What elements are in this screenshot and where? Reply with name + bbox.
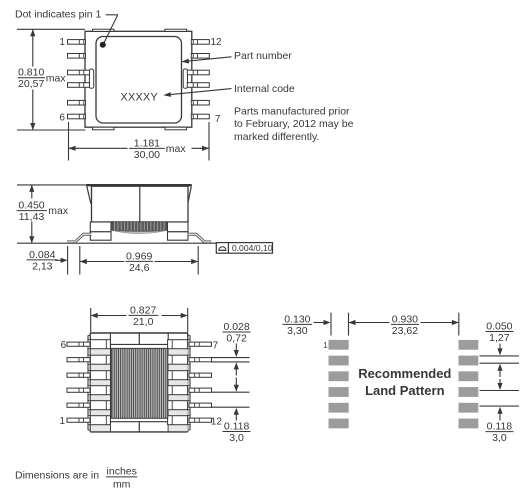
top view: dimension label 1.181/30,00 max xyxy=(129,137,186,161)
land pattern: dimension 0.130/3,30 xyxy=(283,313,349,337)
top view: left side clip bar xyxy=(89,69,93,88)
svg-text:0.930: 0.930 xyxy=(392,313,418,325)
top view: dimension 1.181/30,00 max extension lines and arrows xyxy=(69,122,210,161)
svg-text:1.181: 1.181 xyxy=(134,137,160,149)
side view: left base blocks xyxy=(90,222,111,240)
svg-text:3,30: 3,30 xyxy=(287,325,308,337)
side view: body outline xyxy=(92,186,189,222)
note: parts manufactured prior xyxy=(234,105,354,142)
svg-text:7: 7 xyxy=(213,340,219,351)
bottom view: dimension 0.827/21,0 xyxy=(91,304,188,332)
svg-text:Internal code: Internal code xyxy=(234,83,295,95)
svg-text:max: max xyxy=(48,205,69,217)
svg-text:30,00: 30,00 xyxy=(134,149,160,161)
bottom view: bottom rail with center parting line xyxy=(110,422,168,432)
bottom view: right terminal ladder column xyxy=(168,333,188,432)
side view: right base blocks xyxy=(168,222,189,240)
svg-text:Dot indicates pin 1: Dot indicates pin 1 xyxy=(15,9,102,21)
svg-text:XXXXY: XXXXY xyxy=(120,91,158,103)
svg-text:12: 12 xyxy=(211,37,223,48)
side view: dimension 0.969/24,6 xyxy=(80,246,198,275)
top view: pin 1 indicator dot xyxy=(100,42,106,48)
side view: winding coil band xyxy=(112,222,167,234)
top view: dimension label 0.810/20,57 max xyxy=(18,67,67,91)
top view: left pins 1,2,5,6 xyxy=(68,40,86,119)
svg-text:0.084: 0.084 xyxy=(29,249,55,261)
land pattern: pin 1 marker xyxy=(323,341,328,350)
svg-text:max: max xyxy=(166,143,187,155)
svg-text:1: 1 xyxy=(59,37,65,48)
svg-text:to February, 2012 may be: to February, 2012 may be xyxy=(234,118,354,130)
note: dimensions are in inches/mm xyxy=(15,465,137,490)
top view: left middle pins 3,4 xyxy=(68,70,90,87)
svg-text:1: 1 xyxy=(59,416,65,427)
side view: body center parting line xyxy=(139,186,141,222)
land pattern: title text xyxy=(358,366,451,398)
svg-text:0,72: 0,72 xyxy=(226,333,247,345)
top view: top edge tabs xyxy=(93,29,187,31)
svg-text:inches: inches xyxy=(107,465,137,477)
svg-text:0.118: 0.118 xyxy=(487,421,513,433)
leader line to pin 1 dot xyxy=(104,15,118,43)
land pattern: dimension 0.930/23,62 xyxy=(349,313,459,337)
svg-text:6: 6 xyxy=(61,340,67,351)
svg-text:Recommended: Recommended xyxy=(358,366,451,381)
top view: bottom edge tabs xyxy=(93,127,187,130)
svg-text:0.004/0,10: 0.004/0,10 xyxy=(232,243,273,253)
top view: right side clip bar xyxy=(183,69,187,88)
label: Dot indicates pin 1 xyxy=(15,9,102,21)
land pattern: right pad column xyxy=(459,340,479,428)
svg-text:0.827: 0.827 xyxy=(130,304,156,316)
svg-text:3,0: 3,0 xyxy=(229,432,244,444)
svg-text:24,6: 24,6 xyxy=(129,262,150,274)
svg-text:1: 1 xyxy=(323,341,328,350)
side view: lid top plate xyxy=(86,184,192,186)
bottom view: dimension 0.118/3,0 xyxy=(211,378,251,445)
top view: package outer outline xyxy=(85,31,192,127)
bottom view: top rail with center parting line xyxy=(110,333,168,344)
side view: right gull-wing lead xyxy=(188,234,211,242)
svg-text:Part number: Part number xyxy=(234,50,292,62)
bottom view: left pins xyxy=(67,342,90,422)
bottom view: pin number labels xyxy=(59,340,222,428)
top view: molded body (inner rounded rectangle) xyxy=(96,37,182,124)
label: Internal code with leader arrow xyxy=(163,83,295,97)
label: Part number with leader arrow xyxy=(181,50,292,63)
top view: dimension 0.810/20,57 max extension lines and arrows xyxy=(17,29,85,130)
svg-text:max: max xyxy=(46,72,67,84)
bottom view: right pins xyxy=(189,342,212,422)
svg-text:marked differently.: marked differently. xyxy=(234,131,319,143)
svg-text:2,13: 2,13 xyxy=(32,260,53,272)
land pattern: dimension 0.050/1,27 xyxy=(480,321,520,378)
svg-text:0.969: 0.969 xyxy=(126,250,152,262)
side view: dimension 0.084/2,13 xyxy=(27,246,80,275)
svg-text:0.450: 0.450 xyxy=(18,200,44,212)
side view: coplanarity callout 0.004/0,10 xyxy=(216,243,272,254)
land pattern: left pad column xyxy=(329,340,349,428)
svg-text:0.118: 0.118 xyxy=(224,421,250,433)
top view: right pins 12,11,8,7 xyxy=(191,40,209,119)
svg-text:20,57: 20,57 xyxy=(18,78,44,90)
svg-text:0.050: 0.050 xyxy=(486,321,512,333)
bottom view: left terminal pads xyxy=(88,340,110,425)
land pattern: dimension 0.118/3,0 xyxy=(480,379,520,444)
top view: pin number labels xyxy=(59,37,222,125)
svg-text:11,43: 11,43 xyxy=(19,211,45,223)
top view: right middle pins 9,10 xyxy=(187,70,209,87)
svg-text:Parts manufactured prior: Parts manufactured prior xyxy=(234,105,350,117)
bottom view: winding core hatched area xyxy=(111,348,168,418)
svg-text:0.810: 0.810 xyxy=(18,67,44,79)
svg-text:0.130: 0.130 xyxy=(284,313,310,325)
svg-text:23,62: 23,62 xyxy=(392,325,418,337)
side view: dimension 0.450/11,43 max xyxy=(17,185,89,243)
bottom view: right terminal pads xyxy=(168,340,190,425)
side view: left gull-wing lead xyxy=(67,234,92,242)
svg-text:3,0: 3,0 xyxy=(492,432,507,444)
svg-text:Dimensions are in: Dimensions are in xyxy=(15,469,99,481)
top view: internal code marking XXXXY xyxy=(120,91,158,103)
svg-text:Land Pattern: Land Pattern xyxy=(365,383,445,398)
side view: seating plane line xyxy=(63,242,217,244)
svg-text:21,0: 21,0 xyxy=(133,316,154,328)
bottom view: body outline with corner steps xyxy=(88,333,190,432)
side view: left lid clip xyxy=(87,186,94,204)
bottom view: left terminal ladder column xyxy=(91,333,111,432)
bottom view: dimension 0.028/0,72 xyxy=(211,321,251,376)
svg-text:12: 12 xyxy=(211,417,223,428)
svg-text:7: 7 xyxy=(215,114,221,125)
svg-text:6: 6 xyxy=(59,113,65,124)
svg-text:mm: mm xyxy=(113,478,131,490)
svg-text:0.028: 0.028 xyxy=(223,321,249,333)
side view: right lid clip xyxy=(185,186,192,204)
svg-text:1,27: 1,27 xyxy=(489,332,510,344)
